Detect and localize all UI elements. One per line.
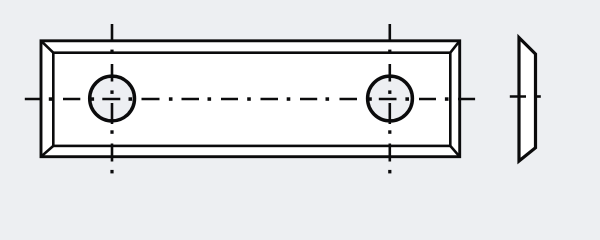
front view inner face outline [53,53,450,146]
vertical centerline through right hole [388,24,391,162]
chamfer edge top-left [41,41,53,53]
vertical centerline dots (left hole) [110,50,113,174]
chamfer edge top-right [450,41,459,53]
side view centerline right tick [536,95,541,98]
hole right [368,76,413,121]
horizontal centerline dashes [25,98,475,101]
front view outer outline [41,41,460,157]
vertical centerline dots (right hole) [388,50,391,174]
side view centerline left tick [510,95,526,98]
chamfer edge bottom-left [41,146,53,157]
side view outline [519,38,536,161]
chamfer edge bottom-right [450,146,459,157]
vertical centerline through left hole [111,24,114,162]
horizontal centerline dots [49,97,449,101]
hole left [90,76,135,121]
